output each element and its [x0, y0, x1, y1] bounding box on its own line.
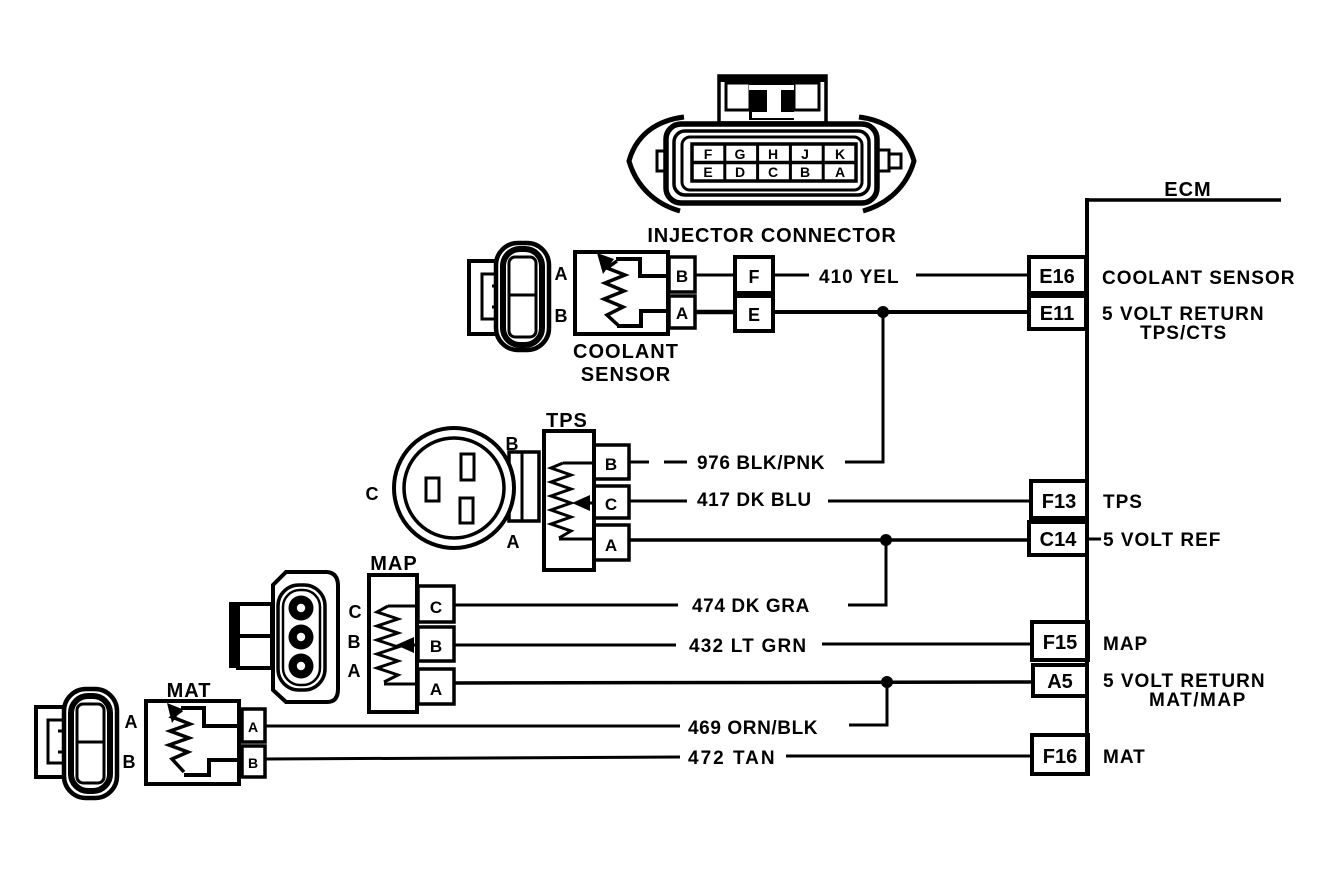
- injector terminal box E: [735, 296, 773, 331]
- bracket bar: [229, 602, 238, 668]
- top tab thick top edge: [718, 75, 826, 82]
- ECM pin C14: [1029, 522, 1087, 555]
- cavity divider: [509, 294, 536, 297]
- svg-text:B: B: [506, 434, 519, 454]
- inner circle: [404, 438, 504, 538]
- svg-text:B: B: [248, 755, 258, 771]
- connector bracket inner: [482, 274, 500, 319]
- MAP pin box B: [418, 627, 454, 661]
- svg-text:A: A: [125, 712, 138, 732]
- junction down to 469 ORN/BLK: [849, 682, 887, 725]
- svg-text:TPS/CTS: TPS/CTS: [1140, 323, 1227, 344]
- pin grid dividers: [723, 144, 726, 181]
- svg-text:A: A: [835, 164, 845, 180]
- svg-text:A: A: [555, 264, 568, 284]
- svg-text:INJECTOR CONNECTOR: INJECTOR CONNECTOR: [647, 225, 896, 247]
- svg-text:432 LT GRN: 432 LT GRN: [689, 636, 807, 657]
- shell outer: [64, 689, 117, 798]
- connector cavity: [509, 257, 536, 337]
- injector connector J1: [629, 75, 914, 211]
- MAP connector (3-pin): [229, 572, 338, 702]
- coolant sensor connector (2-pin): [469, 243, 549, 350]
- svg-text:F: F: [704, 146, 713, 162]
- coolant sensor pin box A: [669, 296, 695, 328]
- wire 469 ORN/BLK: MAT A to junction: [265, 725, 680, 728]
- svg-text:COOLANT SENSOR: COOLANT SENSOR: [1102, 268, 1295, 289]
- pin circle A: [289, 654, 314, 679]
- left keyway notch: [657, 151, 668, 171]
- pin cavity left: [426, 478, 439, 501]
- svg-text:417 DK BLU: 417 DK BLU: [697, 490, 812, 511]
- wire junction down to 976 BLK/PNK: [845, 312, 883, 462]
- connector shell inner: [503, 249, 542, 345]
- body shell 3: [682, 137, 862, 190]
- thermistor zigzag: [169, 710, 190, 772]
- pot zigzag: [551, 463, 571, 538]
- svg-text:MAT: MAT: [167, 680, 212, 702]
- bracket step: [492, 286, 502, 307]
- top tab outer: [719, 76, 826, 123]
- MAP pin box A: [418, 669, 454, 704]
- pin grid midline: [692, 161, 856, 165]
- trace top to C: [388, 605, 418, 608]
- wire 474 DK GRA: MAP C to junction: [454, 604, 678, 607]
- junction down to 474 DK GRA: [848, 540, 886, 605]
- body shell 2: [674, 131, 869, 195]
- ECM pin E11: [1029, 296, 1086, 329]
- svg-text:D: D: [735, 164, 745, 180]
- svg-text:E11: E11: [1040, 303, 1074, 325]
- wiper arrow from C: [588, 502, 594, 505]
- junction dot on E11 wire: [877, 306, 889, 318]
- wire E to E11: [773, 310, 1029, 314]
- pin cavity top: [461, 454, 474, 480]
- svg-text:H: H: [768, 146, 778, 162]
- I-beam key white I: [749, 85, 795, 118]
- trace bottom to A: [559, 538, 594, 541]
- bracket slot lower: [238, 636, 272, 668]
- svg-text:E16: E16: [1039, 266, 1075, 288]
- svg-text:A: A: [248, 719, 258, 735]
- wire 976 BLK/PNK: [629, 461, 649, 464]
- svg-text:C: C: [768, 164, 778, 180]
- ECM pin F16: [1032, 735, 1088, 774]
- MAT sensor body: [146, 701, 242, 784]
- trace zigzag-top to A: [181, 708, 242, 726]
- trace zigzag-bottom to pin A: [617, 311, 669, 326]
- svg-text:469 ORN/BLK: 469 ORN/BLK: [688, 718, 818, 739]
- MAP sensor body (potentiometer): [369, 575, 418, 712]
- wire A to C14 (5 volt ref): [630, 538, 1031, 542]
- TPS sensor body (potentiometer): [544, 431, 594, 570]
- svg-text:5 VOLT RETURN: 5 VOLT RETURN: [1102, 304, 1265, 325]
- connector shell outer: [496, 243, 549, 350]
- ECM top horizontal line: [1087, 198, 1281, 202]
- coolant sensor pin box B: [669, 257, 695, 292]
- cavity: [77, 704, 104, 783]
- right wing: [859, 117, 914, 211]
- svg-text:B: B: [555, 306, 568, 326]
- svg-text:F15: F15: [1043, 632, 1077, 654]
- shell outer: [273, 572, 338, 702]
- ECM vertical boundary line: [1085, 198, 1089, 775]
- svg-text:K: K: [835, 146, 845, 162]
- wire 432 LT GRN: MAP B to F15: [454, 644, 676, 647]
- bracket slot upper: [238, 604, 272, 636]
- thermistor arrow: [167, 703, 182, 723]
- wire A to E: [695, 310, 735, 315]
- svg-text:C14: C14: [1040, 529, 1078, 551]
- TPS pin box A: [594, 525, 629, 560]
- outer circle: [394, 428, 514, 548]
- svg-text:B: B: [348, 632, 361, 652]
- ECM pin F13: [1031, 481, 1087, 518]
- wire 417 DK BLU: C to F13: [629, 500, 687, 503]
- svg-text:MAT/MAP: MAT/MAP: [1149, 690, 1247, 711]
- wire 410 YEL: F to E16: [773, 274, 809, 277]
- wire B to F: [695, 274, 735, 277]
- junction dot on C14 wire: [880, 534, 892, 546]
- injector pin letters row 2: E D C B A: [703, 164, 845, 180]
- left cell: [726, 83, 750, 110]
- svg-text:MAP: MAP: [1103, 634, 1148, 655]
- svg-text:B: B: [605, 455, 617, 474]
- svg-text:J: J: [801, 146, 809, 162]
- TPS pin box B: [594, 445, 629, 479]
- svg-text:A: A: [676, 304, 688, 323]
- svg-text:5 VOLT RETURN: 5 VOLT RETURN: [1103, 671, 1266, 692]
- bracket inner: [48, 720, 66, 763]
- svg-text:C: C: [430, 598, 442, 617]
- pin cavity bottom: [460, 498, 473, 523]
- svg-text:472 TAN: 472 TAN: [688, 748, 777, 769]
- trace bottom to A: [384, 683, 418, 686]
- shell capsule inner: [283, 590, 320, 685]
- MAT pin box B: [242, 746, 265, 777]
- MAT connector (2-pin): [36, 689, 117, 798]
- trace zigzag-bottom to B: [184, 760, 242, 775]
- label 5 VOLT REF: [1087, 538, 1101, 541]
- MAT pin box A: [242, 709, 265, 742]
- svg-text:ECM: ECM: [1164, 179, 1211, 201]
- right keyway notch: [875, 150, 889, 171]
- svg-text:F: F: [749, 267, 760, 287]
- svg-text:E: E: [748, 305, 760, 325]
- svg-text:A: A: [605, 536, 617, 555]
- shell capsule: [278, 585, 325, 690]
- svg-text:E: E: [703, 164, 712, 180]
- trace zigzag-top to pin B: [616, 259, 669, 276]
- svg-text:A: A: [348, 661, 361, 681]
- cavity divider: [77, 741, 104, 744]
- pot zigzag: [377, 606, 398, 682]
- ECM pin A5: [1033, 665, 1087, 696]
- I-beam key black zone: [749, 81, 794, 120]
- svg-text:MAT: MAT: [1103, 747, 1146, 768]
- svg-text:SENSOR: SENSOR: [581, 364, 671, 386]
- svg-text:5 VOLT REF: 5 VOLT REF: [1103, 530, 1221, 551]
- svg-text:B: B: [800, 164, 810, 180]
- shell inner: [71, 696, 110, 791]
- MAP pin box C: [418, 586, 454, 622]
- wire 472 TAN: MAT B to F16: [265, 757, 680, 759]
- injector terminal box F: [735, 257, 773, 293]
- thermistor zigzag: [604, 261, 625, 326]
- svg-text:B: B: [676, 267, 688, 286]
- svg-text:A: A: [507, 532, 520, 552]
- TPS connector (round): [394, 428, 539, 548]
- svg-text:C: C: [349, 602, 362, 622]
- svg-text:F13: F13: [1042, 491, 1076, 513]
- bracket outer: [36, 707, 66, 777]
- junction dot on A5 wire: [881, 676, 893, 688]
- right cell: [794, 83, 819, 110]
- tab rect: [509, 452, 539, 521]
- svg-text:COOLANT: COOLANT: [573, 341, 679, 363]
- svg-text:B: B: [123, 752, 136, 772]
- svg-text:MAP: MAP: [370, 553, 417, 575]
- body outer shell: [666, 124, 877, 203]
- svg-text:976 BLK/PNK: 976 BLK/PNK: [697, 453, 825, 474]
- ECM pin F15: [1032, 622, 1088, 660]
- svg-text:TPS: TPS: [546, 410, 588, 432]
- svg-text:A5: A5: [1047, 671, 1073, 693]
- svg-text:G: G: [735, 146, 746, 162]
- svg-text:C: C: [605, 495, 617, 514]
- svg-text:F16: F16: [1043, 746, 1077, 768]
- wiper arrow from B: [412, 644, 418, 647]
- pin grid frame: [692, 144, 856, 181]
- TPS pin box C: [594, 486, 629, 518]
- left wing: [629, 117, 684, 211]
- connector bracket outer: [469, 261, 500, 334]
- thermistor arrow: [597, 253, 614, 274]
- pin circle B: [289, 625, 314, 650]
- trace top to B: [563, 462, 594, 465]
- bracket steps: [58, 731, 68, 752]
- svg-text:B: B: [430, 637, 442, 656]
- injector pin letters row 1: F G H J K: [704, 146, 845, 162]
- svg-text:474 DK GRA: 474 DK GRA: [692, 596, 810, 617]
- pin circle C: [289, 596, 314, 621]
- svg-text:C: C: [366, 484, 379, 504]
- right keyway small tab: [889, 154, 901, 168]
- wire MAP A to A5: [454, 682, 1033, 683]
- svg-text:A: A: [430, 680, 442, 699]
- svg-text:TPS: TPS: [1103, 492, 1143, 513]
- coolant sensor body: [575, 252, 669, 334]
- svg-text:410 YEL: 410 YEL: [819, 267, 900, 288]
- ECM pin E16: [1029, 257, 1086, 293]
